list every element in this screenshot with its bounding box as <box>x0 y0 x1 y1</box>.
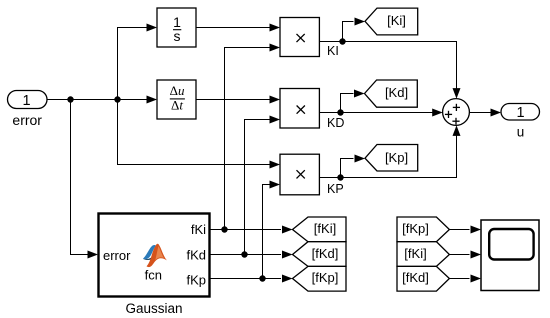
wire: [fKp] from to scope <box>449 229 469 231</box>
wire: KP branch to [Kp] goto <box>341 159 354 178</box>
sum block <box>443 99 470 126</box>
wire: KD branch to [Kd] goto <box>341 94 354 113</box>
goto tag [Kp] <box>365 145 418 172</box>
arrow: into KD upper <box>270 96 281 104</box>
svg-text:[fKp]: [fKp] <box>312 270 339 285</box>
wire: fKp riser to KP lower input <box>263 185 279 279</box>
outport 1 u <box>501 104 540 140</box>
svg-text:[fKd]: [fKd] <box>312 246 339 261</box>
arrow: into sum left <box>432 109 443 117</box>
node: fKp out <box>259 275 265 281</box>
MATLAB logo <box>143 244 167 267</box>
arrow: into Gaussian error <box>88 251 99 259</box>
wire: fKd riser to KD lower input <box>245 120 279 255</box>
goto tag [fKp] <box>293 266 347 291</box>
goto tag [fKd] <box>293 242 347 267</box>
arrow: into [fKp] <box>282 275 293 283</box>
arrow: into KI lower <box>270 44 281 52</box>
arrowheads <box>88 18 502 283</box>
arrow: into scope row3 <box>471 275 482 283</box>
multiply block KP <box>280 154 344 196</box>
node: error branch 1 <box>67 96 73 102</box>
svg-text:fKi: fKi <box>191 222 206 237</box>
svg-text:[Kp]: [Kp] <box>385 150 408 165</box>
goto tag [Ki] <box>365 8 418 35</box>
scope block <box>481 220 539 291</box>
wire: KP output to sum bottom <box>319 127 456 178</box>
wire: Gaussian fKi output <box>210 229 281 231</box>
svg-text:[Ki]: [Ki] <box>387 13 406 28</box>
wire: branch down to KP upper input <box>118 100 279 165</box>
from tag [fKp] <box>397 217 449 242</box>
wire: branch up to 1/s <box>118 28 156 100</box>
goto tag [Kd] <box>365 80 418 107</box>
arrow: into KP lower <box>270 181 281 189</box>
svg-text:error: error <box>12 112 42 128</box>
arrow: into [Kp] <box>355 155 366 163</box>
arrow: into out port <box>491 109 502 117</box>
arrow: into KP upper <box>270 161 281 169</box>
arrow: into KI upper <box>270 24 281 32</box>
arrow: into [Kd] <box>354 90 365 98</box>
node: fKi out <box>221 226 227 232</box>
arrow: into [fKi] <box>282 226 293 234</box>
node: KD out <box>337 109 343 115</box>
svg-text:Δu: Δu <box>170 83 185 98</box>
wire: du/dt output to KD multiply <box>196 99 279 101</box>
svg-text:fcn: fcn <box>145 267 162 282</box>
wire: KI output to sum top <box>319 42 456 98</box>
node: fKd out <box>241 251 247 257</box>
arrow: into sum top (down) <box>453 88 461 99</box>
inport 1 error <box>8 91 48 129</box>
arrow: into [Ki] <box>355 18 366 26</box>
multiply block KI <box>280 18 339 59</box>
arrow: into scope row1 <box>471 226 482 234</box>
svg-text:KP: KP <box>327 182 344 196</box>
svg-text:error: error <box>103 248 131 263</box>
node: error branch 2 <box>114 96 120 102</box>
wire: KI branch to [Ki] goto <box>343 22 354 42</box>
arrow: into sum bottom (up) <box>453 125 461 135</box>
wire: KD output to sum left <box>319 112 441 114</box>
svg-text:1: 1 <box>22 93 30 109</box>
wire: Gaussian fKd output <box>210 254 281 256</box>
svg-text:[fKp]: [fKp] <box>402 221 429 236</box>
integrator block 1/s <box>157 8 196 47</box>
svg-text:[fKd]: [fKd] <box>402 270 429 285</box>
wire: 1/s output to KI multiply <box>196 27 279 29</box>
wire: fKi riser to KI lower input <box>225 48 279 230</box>
svg-text:fKp: fKp <box>186 273 206 288</box>
arrow: into scope row2 <box>471 251 482 259</box>
svg-text:Gaussian: Gaussian <box>125 301 182 316</box>
svg-text:fKd: fKd <box>186 248 206 263</box>
svg-text:KD: KD <box>327 116 344 130</box>
svg-text:u: u <box>517 125 525 140</box>
node: KI out <box>339 38 345 44</box>
wire: [fKi] from to scope <box>449 254 469 256</box>
node: KP out <box>337 174 343 180</box>
MATLAB function block Gaussian <box>99 214 210 297</box>
arrow: into [fKd] <box>282 251 293 259</box>
svg-text:s: s <box>174 28 181 44</box>
from tag [fKd] <box>397 266 449 291</box>
svg-text:[fKi]: [fKi] <box>404 246 426 261</box>
arrow: into 1/s <box>147 24 158 32</box>
from tag [fKi] <box>397 242 449 267</box>
arrow: into KD lower <box>270 116 281 124</box>
wire: [fKd] from to scope <box>449 278 469 280</box>
derivative block du/dt <box>157 80 196 119</box>
goto tag [fKi] <box>293 217 347 242</box>
arrow: into du/dt <box>147 96 158 104</box>
wire: main error horizontal <box>47 99 156 101</box>
wire: branch down to Gaussian <box>71 100 97 255</box>
wire: Gaussian fKp output <box>210 278 281 280</box>
multiply block KD <box>280 89 344 131</box>
svg-text:[fKi]: [fKi] <box>314 221 336 236</box>
svg-text:KI: KI <box>327 44 339 58</box>
svg-text:Δt: Δt <box>171 98 183 113</box>
wire: sum output to out port <box>469 112 499 114</box>
svg-text:1: 1 <box>516 105 524 121</box>
svg-text:[Kd]: [Kd] <box>385 85 408 100</box>
